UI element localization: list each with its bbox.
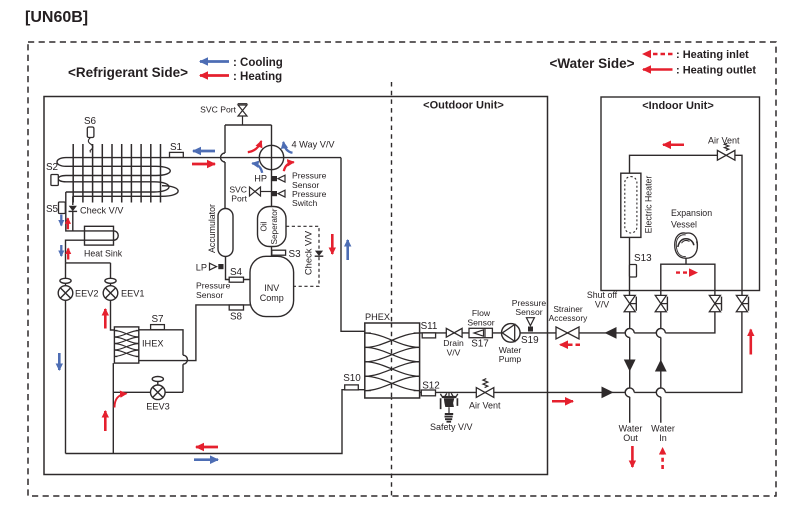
S19 pressure sensor	[521, 318, 539, 346]
svg-text:S19: S19	[521, 335, 539, 346]
arrow blue down at S5	[60, 215, 62, 226]
svg-text:V/V: V/V	[447, 347, 461, 357]
refrigerant/outdoor enclosure box	[44, 97, 548, 475]
legend heating arrow	[200, 74, 229, 77]
arrow blue down left pipe	[58, 353, 61, 370]
arrow red down right of bypass	[331, 234, 334, 254]
svg-text:Electric Heater: Electric Heater	[644, 176, 654, 234]
wire heater to valve1	[629, 237, 631, 295]
svg-text:Sensor: Sensor	[467, 317, 494, 327]
svg-text:LP: LP	[196, 262, 207, 272]
arrow red dashed below strainer	[560, 343, 580, 346]
wire EEV2 down to bottom pipe	[65, 300, 67, 453]
pipe jump at 4-way loop left leg	[221, 153, 226, 162]
dashed divider refrigerant/water side	[391, 82, 393, 496]
LP pressure sensor	[196, 262, 224, 272]
svg-text:S6: S6	[84, 116, 97, 127]
svg-text:<Outdoor Unit>: <Outdoor Unit>	[423, 100, 504, 112]
heat sink block	[85, 226, 114, 245]
svg-text:HP: HP	[254, 174, 267, 184]
svg-text:Sensor: Sensor	[515, 307, 542, 317]
svg-text:SVC Port: SVC Port	[200, 105, 236, 115]
svg-text:Air Vent: Air Vent	[708, 135, 740, 145]
shut off valve 3	[709, 295, 721, 311]
arrow red down water out	[631, 446, 634, 467]
sensor S6	[84, 116, 97, 153]
svg-text:Out: Out	[623, 433, 638, 443]
svg-text:[UN60B]: [UN60B]	[25, 9, 88, 26]
arrow red dashed right on collector	[676, 271, 697, 273]
arrow red right after air vent	[552, 400, 573, 403]
legend heating inlet arrow	[643, 53, 673, 56]
svg-text:<Refrigerant Side>: <Refrigerant Side>	[68, 65, 188, 80]
svg-text:Comp: Comp	[260, 293, 284, 303]
wire coil outlet A to S5	[66, 192, 85, 231]
svg-text:Check V/V: Check V/V	[303, 230, 314, 275]
svg-text:S13: S13	[634, 253, 652, 264]
arrow red up below heat sink	[67, 249, 69, 260]
svg-text:S3: S3	[289, 249, 302, 260]
pipe1 jumps	[625, 328, 630, 397]
svg-text:Sensor: Sensor	[196, 290, 223, 300]
PHEX block	[365, 323, 420, 398]
svg-text:: Heating outlet: : Heating outlet	[676, 65, 756, 77]
sensor S10	[343, 373, 361, 390]
EEV1	[103, 278, 118, 300]
arrow blue down below heat sink	[60, 245, 62, 256]
svg-text:Oil: Oil	[260, 221, 269, 231]
legend cooling arrow	[200, 60, 229, 63]
wire IHEX bottom-right to INV comp with S8	[139, 305, 250, 361]
flow triangle right on line2	[602, 387, 614, 399]
svg-text:: Heating: : Heating	[233, 71, 282, 83]
pipe jumps water line1 over indoor pipes	[625, 328, 665, 333]
svg-text:S5: S5	[46, 204, 59, 215]
wire water out pipe1	[629, 312, 631, 423]
air vent (outdoor)	[476, 379, 494, 398]
svg-text:IHEX: IHEX	[142, 339, 163, 349]
indoor unit box	[601, 97, 760, 291]
sensor S12	[421, 381, 439, 396]
svg-text:Safety V/V: Safety V/V	[430, 422, 473, 432]
svg-text:EEV1: EEV1	[121, 288, 145, 298]
svg-text:S7: S7	[151, 314, 163, 325]
svg-text:PHEX: PHEX	[365, 312, 390, 322]
oil separator	[258, 207, 287, 247]
air heat exchanger coil fins	[73, 144, 160, 203]
expansion vessel	[675, 233, 698, 264]
EEV2	[58, 278, 73, 300]
shut off valve 2	[655, 295, 667, 311]
svg-text:<Water Side>: <Water Side>	[549, 56, 634, 71]
EEV3	[151, 377, 166, 400]
4-way curved arrow blue top-right	[283, 142, 292, 153]
sensor S8	[229, 305, 243, 323]
check valve (coil)	[69, 205, 125, 231]
flow triangle down on pipe1	[624, 360, 636, 372]
sensor S3	[272, 249, 301, 260]
svg-text:EEV3: EEV3	[146, 402, 170, 412]
coil tube serpentine	[57, 158, 178, 197]
oil separator label	[260, 208, 280, 244]
shut off valve 4	[736, 295, 748, 311]
svg-text:<Indoor Unit>: <Indoor Unit>	[642, 100, 714, 112]
svg-text:Seperator: Seperator	[270, 208, 279, 244]
wire EEV3 branch	[113, 391, 183, 393]
arrow red up below EEV3 junction	[104, 411, 107, 431]
pipe2 jumps	[656, 328, 661, 397]
air vent (indoor)	[717, 143, 735, 160]
svg-text:V/V: V/V	[595, 299, 609, 309]
svg-text:: Cooling: : Cooling	[233, 57, 283, 69]
SVC port top valve	[238, 104, 248, 125]
wire IHEX bottom-left down	[112, 363, 114, 453]
svg-text:S11: S11	[421, 321, 438, 332]
SVC port mid valve	[250, 187, 272, 196]
4-way valve	[259, 145, 283, 169]
4-way curved arrow red right	[284, 162, 294, 171]
svg-text:S4: S4	[230, 267, 243, 278]
arrow red dashed up water in	[661, 448, 664, 469]
wire bottom liquid pipe	[66, 390, 365, 454]
water pump	[502, 324, 521, 343]
electric heater block	[621, 173, 641, 237]
dashed divider over PHEX	[391, 323, 393, 398]
4-way curved arrow red top-left	[248, 141, 261, 152]
wire accumulator to INV comp	[226, 257, 251, 280]
svg-text:INV: INV	[264, 283, 279, 293]
svg-text:S1: S1	[170, 142, 183, 153]
heat sink pipe loop	[66, 231, 119, 263]
accumulator	[218, 209, 233, 257]
svg-text:Air Vent: Air Vent	[469, 400, 501, 410]
svg-text:S17: S17	[471, 339, 489, 350]
arrow red heating near S1	[192, 163, 215, 166]
svg-text:Vessel: Vessel	[671, 219, 697, 229]
svg-text:EEV2: EEV2	[75, 288, 99, 298]
svg-text:In: In	[659, 433, 667, 443]
svg-text:Port: Port	[231, 194, 247, 204]
arrow red up right of pipe4	[749, 330, 752, 355]
svg-text:: Heating inlet: : Heating inlet	[676, 49, 749, 61]
wire IHEX top-right to EEV3 riser with S7	[139, 330, 183, 393]
sensor S2	[46, 162, 58, 186]
svg-text:Switch: Switch	[292, 198, 318, 208]
sensor S13	[630, 253, 653, 277]
svg-text:4 Way V/V: 4 Way V/V	[292, 140, 336, 150]
indoor collector line	[661, 264, 715, 295]
indoor top line	[630, 155, 743, 295]
wire oil separator to INV comp	[271, 247, 273, 257]
svg-text:S10: S10	[343, 373, 361, 384]
svg-text:S8: S8	[230, 312, 243, 323]
svg-text:Check V/V: Check V/V	[80, 205, 124, 215]
wire main suction line to 4-way valve	[161, 157, 342, 159]
arrow blue right below bottom pipe	[194, 458, 218, 461]
wire EEV1 down to IHEX	[111, 300, 115, 330]
pressure switch sensor	[272, 190, 285, 197]
check valve (bypass)	[315, 251, 324, 257]
HP pressure sensor	[254, 174, 285, 184]
wire water return line S12	[420, 312, 742, 393]
curved red arrow into EEV3 branch	[115, 394, 127, 408]
flow triangle up on pipe2	[655, 360, 667, 372]
legend heating outlet arrow	[643, 68, 673, 71]
check VV dashed bypass	[286, 226, 319, 286]
wire water outlet line S11	[420, 312, 715, 333]
arrow red left indoor top	[663, 144, 684, 147]
INV compressor	[250, 256, 294, 316]
wire coil outlet B	[72, 196, 74, 205]
4-way curved arrow blue bottom-left	[252, 163, 262, 173]
sensor S4	[229, 267, 243, 282]
strainer accessory	[556, 327, 579, 339]
svg-text:S2: S2	[46, 162, 58, 173]
arrow red up above EEV1	[104, 309, 107, 329]
svg-text:Pump: Pump	[499, 354, 522, 364]
flow triangle left on line1	[605, 327, 617, 339]
arrow blue cooling near S1	[193, 150, 215, 153]
sensor S11	[421, 321, 438, 338]
wire water in pipe2	[660, 312, 662, 423]
arrow red up at S5	[67, 218, 69, 229]
pipe jump EEV3 riser over IHEX bottom line	[183, 355, 188, 364]
drain valve	[446, 328, 462, 337]
svg-text:Expansion: Expansion	[671, 208, 712, 218]
svg-text:Heat Sink: Heat Sink	[84, 249, 123, 259]
safety valve	[440, 392, 457, 421]
flow sensor	[469, 328, 492, 337]
sensor S5	[46, 202, 65, 215]
svg-text:Accessory: Accessory	[549, 313, 588, 323]
svg-text:Accumulator: Accumulator	[207, 204, 217, 253]
sensor S1	[170, 142, 184, 157]
arrow blue up right of bypass	[346, 240, 349, 260]
sensor S7	[151, 314, 165, 330]
wire 4-way loop	[225, 125, 272, 209]
IHEX block	[114, 327, 138, 363]
wire 4way to PHEX top port	[341, 158, 365, 332]
pipe jumps water line2 over indoor pipes	[625, 388, 665, 393]
arrow red left above bottom pipe	[196, 446, 218, 449]
shut off valve 1	[624, 295, 636, 311]
wire EEV header	[66, 263, 111, 279]
